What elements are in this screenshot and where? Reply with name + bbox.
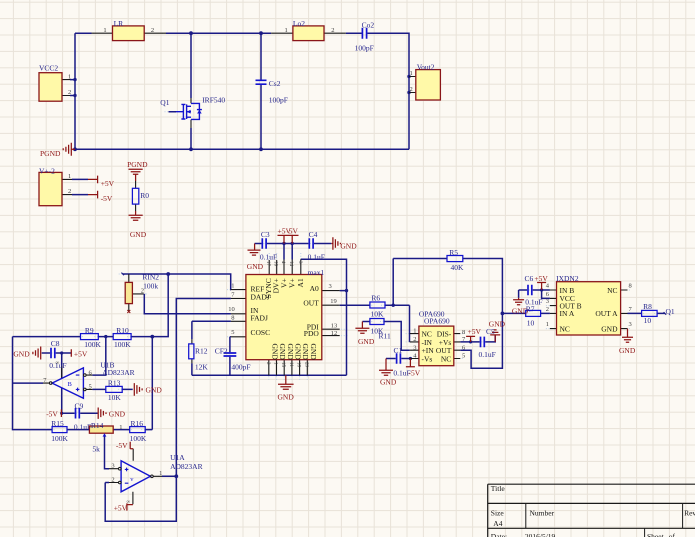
svg-text:400pF: 400pF <box>231 362 250 371</box>
svg-text:3: 3 <box>111 463 114 470</box>
svg-text:100k: 100k <box>143 282 158 291</box>
svg-text:12K: 12K <box>195 363 209 372</box>
svg-text:Cs2: Cs2 <box>269 79 281 88</box>
svg-text:GND: GND <box>294 344 303 361</box>
svg-text:Q1: Q1 <box>160 98 169 107</box>
svg-text:8: 8 <box>231 314 234 321</box>
svg-text:R5: R5 <box>449 248 458 257</box>
svg-text:3: 3 <box>629 321 632 328</box>
svg-text:2: 2 <box>413 336 416 343</box>
svg-text:0.1uF: 0.1uF <box>74 422 91 431</box>
svg-text:1: 1 <box>119 424 122 431</box>
svg-text:R13: R13 <box>108 379 121 388</box>
svg-text:R8: R8 <box>643 302 652 311</box>
svg-text:C8: C8 <box>51 339 60 348</box>
svg-text:+5V: +5V <box>468 327 482 336</box>
svg-text:1: 1 <box>68 173 71 180</box>
svg-text:3: 3 <box>413 344 416 351</box>
svg-text:1: 1 <box>68 73 71 80</box>
svg-text:100K: 100K <box>84 340 101 349</box>
svg-text:10: 10 <box>527 318 535 327</box>
svg-text:1: 1 <box>159 470 162 477</box>
svg-text:-5V: -5V <box>101 194 113 203</box>
svg-text:V+-2: V+-2 <box>39 166 55 175</box>
svg-text:+5V: +5V <box>74 349 88 358</box>
svg-text:R10: R10 <box>116 326 129 335</box>
svg-text:COSC: COSC <box>251 328 271 337</box>
svg-text:R16: R16 <box>131 419 144 428</box>
svg-text:AD823AR: AD823AR <box>170 462 203 471</box>
svg-text:+5V: +5V <box>101 179 115 188</box>
svg-text:GND: GND <box>278 344 287 361</box>
svg-text:Q1: Q1 <box>666 307 675 316</box>
svg-text:2: 2 <box>151 27 154 34</box>
svg-text:GND: GND <box>247 262 264 271</box>
svg-text:12: 12 <box>331 330 338 337</box>
svg-text:40K: 40K <box>451 263 465 272</box>
svg-text:3: 3 <box>329 283 332 290</box>
svg-text:5: 5 <box>231 329 234 336</box>
svg-text:C1: C1 <box>394 346 403 355</box>
svg-text:100pF: 100pF <box>269 95 288 104</box>
svg-text:-5V: -5V <box>409 368 421 377</box>
svg-text:C3: C3 <box>261 230 270 239</box>
svg-text:NC: NC <box>441 354 451 363</box>
svg-text:1: 1 <box>410 70 413 77</box>
svg-text:IXDN2: IXDN2 <box>556 274 579 283</box>
svg-text:A1: A1 <box>296 278 305 287</box>
svg-text:A4: A4 <box>493 519 502 528</box>
svg-text:NC: NC <box>560 324 570 333</box>
svg-text:Title: Title <box>491 484 506 493</box>
svg-text:RIN2: RIN2 <box>142 273 159 282</box>
svg-text:10K: 10K <box>108 393 122 402</box>
svg-text:FADJ: FADJ <box>251 314 268 323</box>
svg-text:5V: 5V <box>289 227 299 236</box>
svg-text:3: 3 <box>546 298 549 305</box>
svg-text:2: 2 <box>546 306 549 313</box>
svg-text:2: 2 <box>68 89 71 96</box>
svg-text:10: 10 <box>228 306 235 313</box>
svg-text:IN A: IN A <box>560 309 575 318</box>
svg-text:R0: R0 <box>140 191 149 200</box>
svg-text:Date:: Date: <box>491 532 507 537</box>
svg-text:PGND: PGND <box>40 149 61 158</box>
svg-text:1: 1 <box>103 27 106 34</box>
svg-text:∞: ∞ <box>127 500 131 505</box>
svg-text:100pF: 100pF <box>355 44 374 53</box>
svg-text:15: 15 <box>280 362 285 368</box>
svg-text:8: 8 <box>462 329 465 336</box>
svg-text:IRF540: IRF540 <box>202 95 225 104</box>
svg-text:0.1uF: 0.1uF <box>479 350 496 359</box>
svg-text:max1: max1 <box>308 268 325 277</box>
svg-text:-5V: -5V <box>116 441 128 450</box>
svg-text:2: 2 <box>68 188 71 195</box>
svg-text:13: 13 <box>331 323 338 330</box>
svg-text:100K: 100K <box>51 434 68 443</box>
svg-text:∞: ∞ <box>56 361 60 366</box>
svg-text:5: 5 <box>89 383 92 390</box>
svg-text:VCC2: VCC2 <box>39 63 58 72</box>
svg-text:C6: C6 <box>525 274 534 283</box>
svg-text:R6: R6 <box>371 294 380 303</box>
svg-text:GND: GND <box>286 344 295 361</box>
svg-text:Sheet: Sheet <box>647 532 665 537</box>
svg-text:1: 1 <box>231 283 234 290</box>
svg-text:AD823AR: AD823AR <box>102 368 135 377</box>
svg-text:LR: LR <box>114 19 124 28</box>
svg-text:B: B <box>68 381 73 388</box>
svg-text:C9: C9 <box>75 401 84 410</box>
svg-text:PDO: PDO <box>304 329 320 338</box>
svg-text:GND: GND <box>340 241 357 250</box>
svg-text:GND: GND <box>278 393 295 402</box>
svg-text:2: 2 <box>141 288 144 295</box>
svg-text:18: 18 <box>296 362 301 368</box>
svg-text:R7: R7 <box>526 305 535 314</box>
svg-text:Co2: Co2 <box>362 21 375 30</box>
svg-text:2016/5/19: 2016/5/19 <box>525 532 556 537</box>
svg-text:R15: R15 <box>51 419 64 428</box>
svg-text:A0: A0 <box>310 284 319 293</box>
svg-text:Number: Number <box>530 509 555 518</box>
svg-text:Vout2: Vout2 <box>417 62 435 71</box>
svg-text:GND: GND <box>309 344 318 361</box>
svg-text:OUT A: OUT A <box>595 309 618 318</box>
svg-text:PGND: PGND <box>127 160 148 169</box>
svg-text:OUT: OUT <box>303 299 319 308</box>
svg-text:Lo2: Lo2 <box>293 19 305 28</box>
svg-text:+5V: +5V <box>534 274 548 283</box>
svg-text:2: 2 <box>111 476 114 483</box>
svg-text:2: 2 <box>410 86 413 93</box>
svg-text:GND: GND <box>358 337 375 346</box>
svg-text:1: 1 <box>285 27 288 34</box>
svg-text:GND: GND <box>619 346 636 355</box>
svg-text:R11: R11 <box>379 332 391 341</box>
svg-text:2: 2 <box>331 27 334 34</box>
svg-text:C4: C4 <box>309 230 318 239</box>
svg-text:10K: 10K <box>371 310 385 319</box>
svg-text:GND: GND <box>130 230 147 239</box>
svg-text:GND: GND <box>146 386 163 395</box>
svg-text:CF2: CF2 <box>215 346 228 355</box>
svg-text:Rev: Rev <box>684 509 695 518</box>
svg-text:OPA690: OPA690 <box>424 316 450 325</box>
svg-text:1: 1 <box>413 328 416 335</box>
svg-text:-Vs: -Vs <box>422 354 433 363</box>
svg-text:GND: GND <box>380 377 397 386</box>
svg-text:GND: GND <box>601 324 618 333</box>
svg-text:10: 10 <box>644 316 652 325</box>
svg-text:14: 14 <box>288 261 293 267</box>
svg-text:GND: GND <box>270 344 279 361</box>
svg-text:8: 8 <box>629 283 632 290</box>
svg-text:R12: R12 <box>195 346 208 355</box>
svg-text:19: 19 <box>330 298 337 305</box>
svg-text:GND: GND <box>301 344 310 361</box>
svg-text:11: 11 <box>288 362 293 367</box>
svg-text:5: 5 <box>462 353 465 360</box>
svg-text:0.1uF: 0.1uF <box>308 253 325 262</box>
svg-text:100K: 100K <box>130 434 147 443</box>
svg-text:17: 17 <box>265 261 270 267</box>
svg-text:Size: Size <box>491 509 505 518</box>
svg-text:1: 1 <box>546 321 549 328</box>
svg-text:NC: NC <box>607 286 617 295</box>
svg-text:GND: GND <box>489 320 506 329</box>
svg-text:R14: R14 <box>91 421 104 430</box>
svg-text:-5V: -5V <box>46 410 58 419</box>
svg-text:GND: GND <box>109 410 126 419</box>
svg-text:R9: R9 <box>85 326 94 335</box>
svg-text:of: of <box>669 532 676 537</box>
svg-text:5k: 5k <box>92 445 100 454</box>
svg-text:GND: GND <box>13 349 30 358</box>
svg-text:100K: 100K <box>114 340 131 349</box>
svg-text:16: 16 <box>273 261 278 267</box>
svg-text:23: 23 <box>303 362 308 368</box>
